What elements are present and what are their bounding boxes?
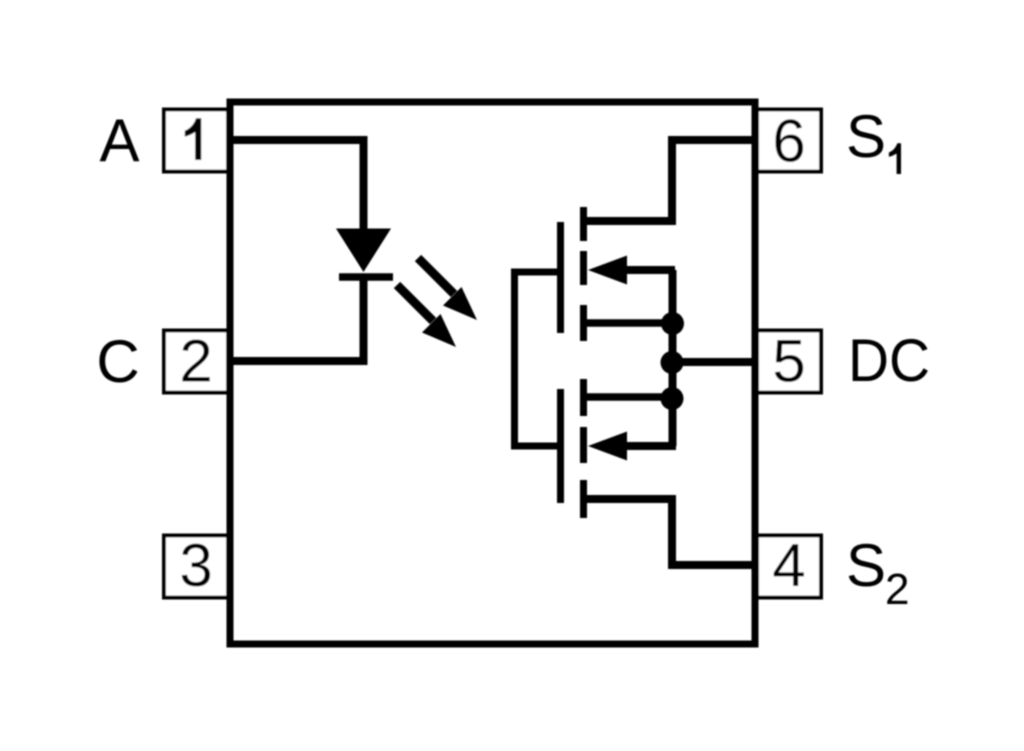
LED D1 cathode bar <box>339 273 393 281</box>
LED light arrow 1 <box>418 258 477 320</box>
svg-text:C: C <box>96 328 139 395</box>
gate bus wire <box>515 272 559 446</box>
pin 6 box <box>757 110 821 172</box>
wire pin1 to LED anode <box>228 140 364 231</box>
svg-text:5: 5 <box>772 328 805 395</box>
pin 2 box <box>164 331 228 393</box>
svg-text:3: 3 <box>179 532 212 599</box>
junction dot bottom <box>661 387 684 410</box>
transistor Q1 channel <box>580 207 587 341</box>
wire Q2 drain stub <box>586 393 672 401</box>
svg-text:6: 6 <box>772 108 805 175</box>
package outline <box>230 102 755 644</box>
transistor Q2 channel <box>580 379 587 518</box>
wire to pin 5 <box>672 358 758 366</box>
pin 3 box <box>164 536 228 598</box>
wire Q2 source to pin 4 <box>586 499 758 565</box>
LED light arrow 2 <box>397 285 456 347</box>
junction dot top <box>661 312 684 335</box>
junction dot middle <box>661 351 684 374</box>
svg-text:2: 2 <box>179 328 212 395</box>
svg-text:2: 2 <box>885 565 909 614</box>
svg-text:4: 4 <box>772 532 805 599</box>
transistor Q1 body arrow <box>588 256 675 285</box>
svg-text:DC: DC <box>848 327 930 394</box>
wire DC bus vertical <box>669 270 677 446</box>
transistor Q1 gate plate <box>557 222 564 333</box>
svg-text:S: S <box>846 532 886 599</box>
svg-text:S: S <box>846 103 886 170</box>
pin 4 box <box>757 536 821 598</box>
pin 1 box <box>164 110 228 172</box>
transistor Q2 gate plate <box>557 389 564 503</box>
svg-text:A: A <box>99 107 139 174</box>
LED D1 anode triangle <box>336 229 391 273</box>
wire Q1 drain to pin 6 <box>586 140 758 221</box>
wire LED cathode to pin2 <box>228 274 364 361</box>
wire Q1 source stub <box>586 319 672 327</box>
pin 5 box <box>757 331 821 393</box>
pin 1 number <box>185 118 201 160</box>
transistor Q2 body arrow <box>588 432 676 461</box>
